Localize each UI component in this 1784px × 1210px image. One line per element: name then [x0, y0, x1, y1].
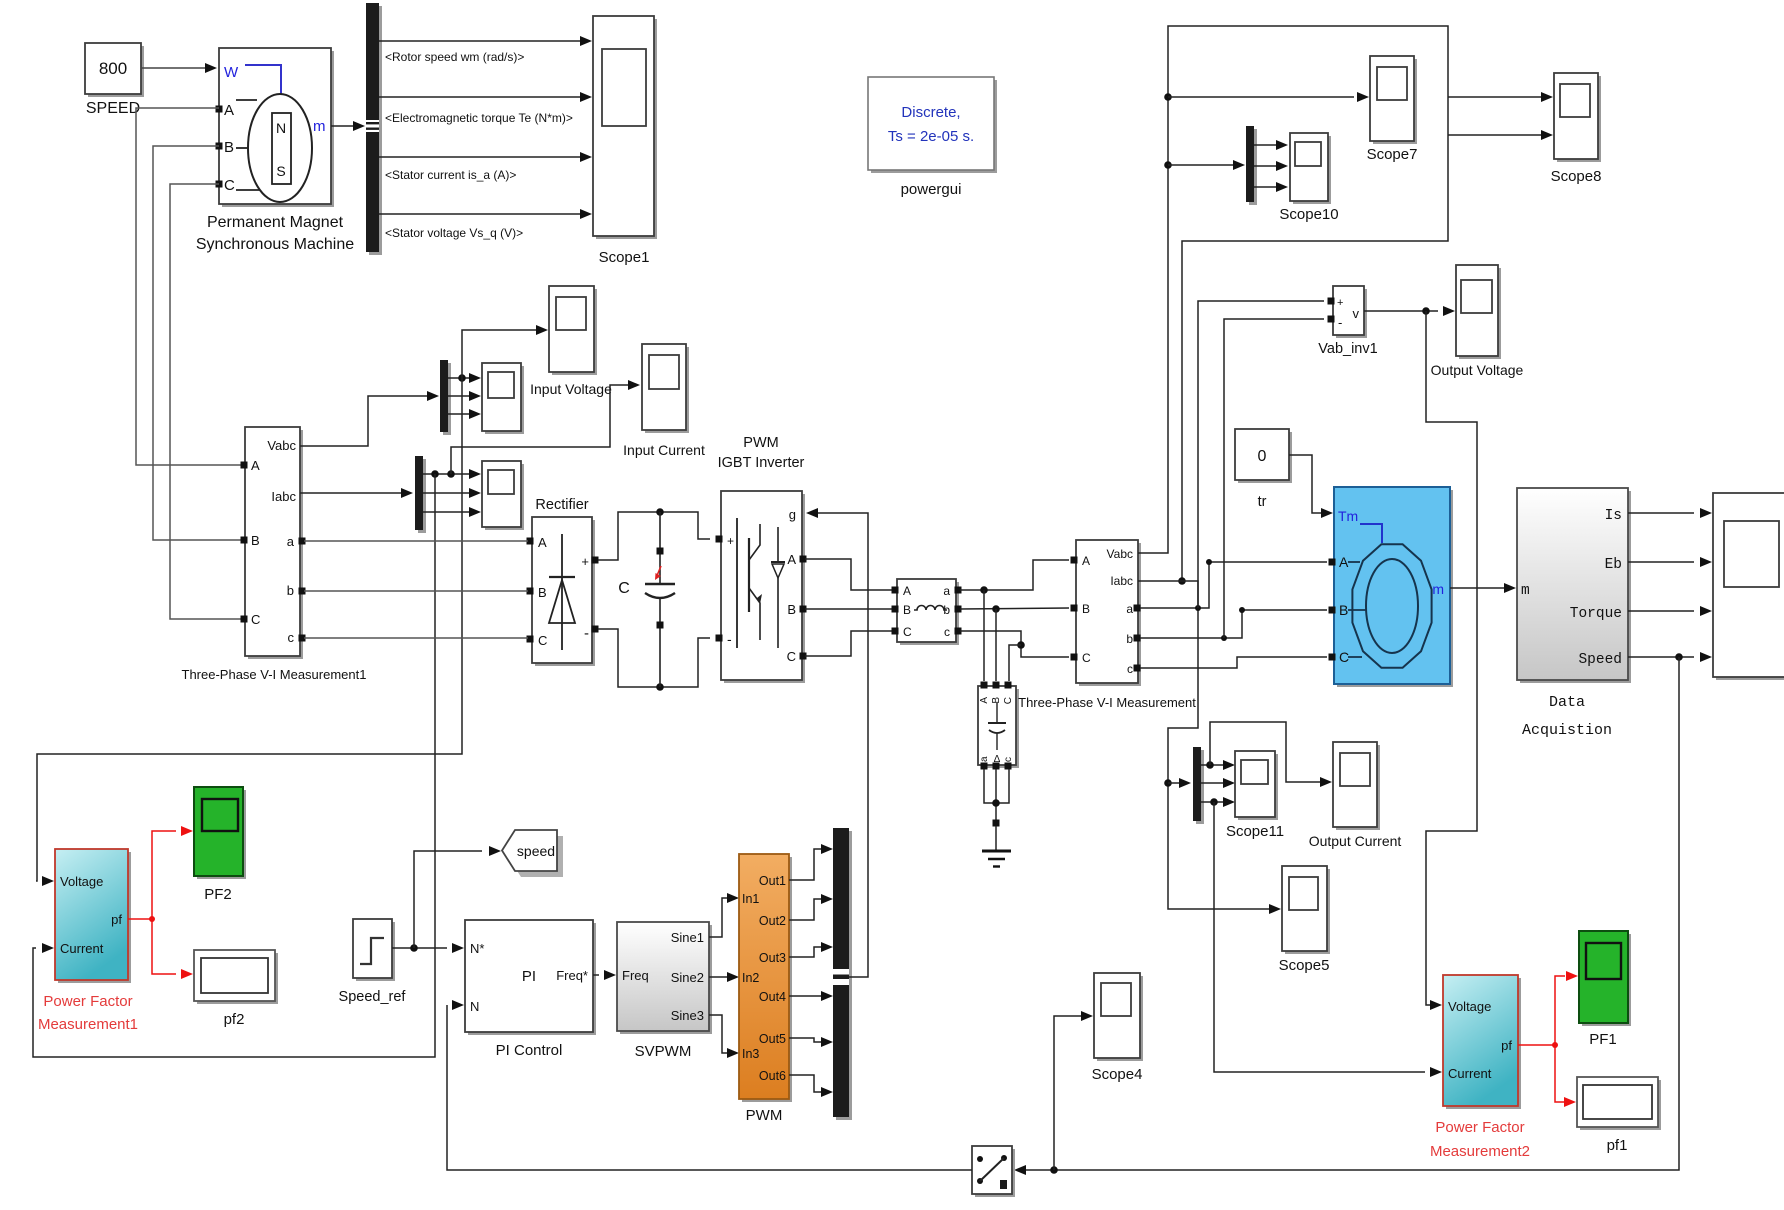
svg-text:Data: Data: [1549, 694, 1585, 711]
wire bus2 out3: [423, 511, 469, 513]
svg-text:A: A: [224, 102, 234, 119]
wire Out6 to mux: [789, 1075, 821, 1092]
svg-text:Synchronous Machine: Synchronous Machine: [196, 236, 354, 253]
block Manual Switch: [972, 1146, 1015, 1197]
block Data Acquisition: [1517, 488, 1631, 683]
wire measurement1 a to rectifier A: [304, 540, 528, 542]
svg-text:In2: In2: [742, 971, 759, 985]
scope Scope4: [1094, 973, 1143, 1061]
junction Scope4 tap: [1050, 1166, 1058, 1174]
wire Vab_inv1 out: [1364, 310, 1438, 312]
junction pf2 red: [149, 916, 155, 922]
demux bus Scope11: [1196, 750, 1204, 824]
svg-text:Out5: Out5: [759, 1032, 786, 1046]
svg-text:C: C: [1082, 651, 1091, 665]
svg-text:m: m: [1521, 583, 1530, 599]
wire to PFM2 Current input: [1214, 802, 1425, 1072]
svg-text:Rectifier: Rectifier: [535, 497, 588, 513]
junction bus2 out1 tap b: [447, 470, 455, 478]
wire rectifier minus rail: [598, 629, 710, 687]
svg-text:0: 0: [1258, 448, 1267, 465]
svg-text:c: c: [1127, 662, 1133, 676]
wire PFM2 pf output: [1518, 1044, 1555, 1046]
svg-text:Power Factor: Power Factor: [43, 993, 132, 1010]
wire speed feedback down and left: [1026, 657, 1679, 1170]
wire stator voltage to Scope1 in4: [379, 213, 580, 215]
block PWM IGBT Inverter: [721, 491, 805, 683]
svg-text:C: C: [1339, 649, 1349, 665]
wire PMSM A to measurement1 A: [136, 108, 242, 465]
svg-text:Scope10: Scope10: [1279, 206, 1338, 223]
wire cap bank to ground bus: [984, 769, 1009, 803]
block asynchronous machine blue: [1334, 487, 1453, 687]
svg-text:Vabc: Vabc: [1107, 547, 1133, 561]
wire to Scope8 in1: [1448, 96, 1541, 98]
wire Speed to scope: [1628, 656, 1694, 658]
constant block tr value 0: [1235, 429, 1292, 483]
wire current tap to PFM1 Current: [33, 474, 435, 1057]
svg-text:Discrete,: Discrete,: [901, 104, 960, 121]
junction Vab out: [1422, 307, 1430, 315]
PMSM rotor icon ellipse: [248, 94, 312, 202]
svg-text:powergui: powergui: [901, 181, 962, 198]
wire stator current to Scope1 in3: [379, 156, 580, 158]
svg-text:<Stator voltage Vs_q (V)>: <Stator voltage Vs_q (V)>: [385, 226, 523, 240]
junction PFM2 current tap: [1210, 798, 1218, 806]
block three-phase series branch: [897, 579, 959, 645]
junction scope10 tap: [1164, 161, 1172, 169]
svg-text:Out1: Out1: [759, 874, 786, 888]
wire to ground symbol: [995, 826, 997, 851]
wire rotor speed to Scope1 in1: [379, 40, 580, 42]
block Power Factor Measurement2: [1443, 975, 1521, 1109]
svg-text:-: -: [727, 631, 732, 647]
svg-text:SPEED: SPEED: [86, 100, 140, 117]
display pf1: [1577, 1077, 1661, 1130]
wire Out2 to mux: [789, 899, 821, 920]
svg-text:pf1: pf1: [1607, 1137, 1628, 1154]
svg-text:Scope11: Scope11: [1226, 823, 1284, 840]
wire bus2 out2: [423, 492, 469, 494]
wire cap bank mid down: [995, 769, 997, 820]
svg-text:A: A: [538, 535, 547, 550]
svg-text:g: g: [789, 507, 796, 522]
junction output current tap: [1206, 761, 1214, 769]
wire to Scope10 bus: [1168, 164, 1233, 166]
svg-text:Torque: Torque: [1570, 606, 1622, 622]
wire scope10 bus out2: [1254, 165, 1276, 167]
svg-text:tr: tr: [1258, 494, 1267, 510]
svg-text:Voltage: Voltage: [1448, 999, 1491, 1014]
svg-text:a: a: [979, 756, 990, 762]
wire cap bank feed b: [995, 609, 997, 681]
svg-text:<Electromagnetic torque Te (N*: <Electromagnetic torque Te (N*m)>: [385, 111, 573, 125]
svg-text:Vab_inv1: Vab_inv1: [1318, 341, 1377, 357]
port squares rectifier: [527, 538, 534, 545]
wire series b to measurement2 B: [960, 608, 1069, 609]
port squares series block: [892, 587, 899, 594]
block Permanent Magnet Synchronous Machine: [219, 48, 334, 207]
wire Eb to scope: [1628, 561, 1694, 563]
svg-text:B: B: [1339, 602, 1348, 618]
junction ground node: [992, 799, 1000, 807]
svg-text:B: B: [224, 139, 234, 156]
port squares measurement2: [1071, 557, 1078, 564]
svg-text:c: c: [288, 630, 295, 645]
svg-text:A: A: [1339, 554, 1349, 570]
junction Iabc net: [1178, 577, 1186, 585]
svg-text:m: m: [313, 118, 326, 135]
machine blue elbow: [1360, 524, 1382, 543]
svg-text:B: B: [787, 602, 796, 617]
svg-text:A: A: [251, 458, 260, 473]
constant block SPEED value 800: [85, 43, 144, 97]
mux bar break marks: [833, 969, 849, 975]
svg-text:Current: Current: [60, 941, 104, 956]
block PI Control: [465, 920, 596, 1035]
svg-text:-: -: [584, 625, 589, 642]
block Power Factor Measurement1: [55, 849, 131, 983]
wire bus2 out1: [423, 473, 469, 475]
IGBT icon: [736, 518, 738, 648]
wire series c to measurement2 C: [960, 631, 1069, 657]
svg-text:PF1: PF1: [1589, 1031, 1617, 1048]
junction bus2 out1 tap a: [431, 470, 439, 478]
junction corner b: [1239, 607, 1245, 613]
wire PI Freq* to SVPWM Freq: [593, 974, 599, 976]
svg-text:N: N: [470, 999, 479, 1014]
scope Scope1: [593, 16, 657, 239]
junction phase a to cap bank: [980, 586, 988, 594]
wire bus1 out1: [448, 377, 469, 379]
wire pf to PF1 scope: [1555, 976, 1565, 1045]
scope Output Current: [1333, 742, 1380, 830]
wire 800 to PMSM W input: [141, 67, 205, 69]
scope Scope5: [1282, 866, 1330, 954]
svg-text:B: B: [251, 533, 260, 548]
wire phase a to Vab_inv1 plus: [1198, 301, 1324, 608]
svg-text:v: v: [1353, 306, 1360, 321]
svg-text:Voltage: Voltage: [60, 874, 103, 889]
scope Scope8: [1554, 73, 1601, 162]
wire Out5 to mux: [789, 1038, 821, 1042]
junction phase b to cap bank: [992, 605, 1000, 613]
Speed_ref step icon: [360, 938, 384, 964]
svg-text:Tm: Tm: [1338, 508, 1358, 524]
wire scope11 bus out2: [1201, 782, 1223, 784]
svg-text:Current: Current: [1448, 1066, 1492, 1081]
scope Input Current: [642, 344, 689, 433]
scope right edge: [1713, 493, 1784, 680]
junction speed feedback: [1675, 653, 1683, 661]
wire measurement2 b to machine B: [1140, 610, 1327, 638]
svg-text:b: b: [1126, 632, 1133, 646]
junction Vab plus tap: [1195, 605, 1201, 611]
wire phase b to Vab_inv1 minus: [1224, 319, 1324, 638]
wire scope10 bus out3: [1254, 186, 1276, 188]
svg-text:m: m: [1432, 581, 1444, 597]
wire inverter A to series A: [805, 559, 892, 590]
svg-text:Vabc: Vabc: [267, 438, 296, 453]
svg-text:Sine1: Sine1: [671, 930, 704, 945]
svg-text:Output Voltage: Output Voltage: [1431, 362, 1524, 378]
bus selector break marks: [366, 120, 379, 132]
wire Torque to scope: [1628, 610, 1694, 612]
capacitor C: [659, 512, 661, 583]
scope voltage phases: [482, 363, 524, 434]
wire to Scope8 in2: [1448, 134, 1541, 136]
block Vab_inv1 voltage measurement: [1333, 286, 1367, 338]
wire machine m to Data Acquisition: [1450, 587, 1504, 589]
wire mux to inverter g: [818, 513, 868, 977]
PMSM blue W elbow: [245, 65, 281, 94]
wire to speed goto tag: [414, 851, 482, 948]
svg-text:A: A: [787, 552, 796, 567]
wire Out4 to mux: [789, 995, 821, 997]
svg-text:C: C: [538, 633, 547, 648]
wire into scope11 bus: [1168, 782, 1179, 784]
svg-text:Eb: Eb: [1605, 557, 1622, 573]
svg-text:Iabc: Iabc: [1110, 574, 1133, 588]
svg-text:a: a: [943, 584, 950, 598]
scope Input Voltage: [549, 286, 597, 375]
svg-text:N: N: [276, 120, 286, 136]
svg-text:Is: Is: [1605, 508, 1622, 524]
display pf2: [194, 950, 278, 1004]
svg-text:Out3: Out3: [759, 951, 786, 965]
svg-text:C: C: [903, 625, 912, 639]
current demux bus2: [418, 459, 426, 533]
svg-text:Scope1: Scope1: [599, 249, 650, 266]
svg-text:PF2: PF2: [204, 886, 232, 903]
svg-text:Sine3: Sine3: [671, 1008, 704, 1023]
svg-text:Input Current: Input Current: [623, 442, 705, 458]
demux bus Scope10: [1249, 129, 1257, 205]
svg-text:IGBT Inverter: IGBT Inverter: [718, 455, 805, 471]
svg-text:Sine2: Sine2: [671, 970, 704, 985]
PMSM inner stub lines: [236, 99, 257, 101]
junction pf1 red: [1552, 1042, 1558, 1048]
wire Is to scope: [1628, 512, 1694, 514]
svg-text:In1: In1: [742, 892, 759, 906]
scope Scope10: [1290, 133, 1331, 204]
wire to Scope4: [1054, 1016, 1081, 1170]
svg-text:Measurement2: Measurement2: [1430, 1143, 1530, 1160]
svg-text:a: a: [1126, 602, 1133, 616]
svg-text:+: +: [581, 554, 589, 569]
svg-text:Permanent Magnet: Permanent Magnet: [207, 214, 344, 231]
wire Iabc to scope11 bus and Scope5: [1138, 581, 1269, 909]
svg-text:PI Control: PI Control: [496, 1042, 563, 1059]
svg-text:PWM: PWM: [743, 435, 778, 451]
junction cap top: [656, 508, 664, 516]
svg-text:Input Voltage: Input Voltage: [530, 381, 612, 397]
wire bus1 out2: [448, 395, 469, 397]
svg-text:Freq: Freq: [622, 968, 649, 983]
block SVPWM: [617, 922, 712, 1034]
wire Sine1 to PWM In1: [709, 898, 727, 937]
svg-text:+: +: [1337, 297, 1343, 309]
manual switch icon: [977, 1156, 983, 1162]
wire pf to pf2 display: [152, 919, 176, 974]
wire to Scope7: [1168, 96, 1354, 98]
wire scope11 bus out3: [1201, 801, 1223, 803]
ground symbol: [982, 850, 1011, 853]
block Rectifier: [532, 517, 595, 666]
rectifier diode icon: [561, 534, 563, 650]
svg-text:C: C: [251, 612, 260, 627]
mux bar gate signals: [836, 831, 852, 1120]
svg-text:C: C: [224, 177, 235, 194]
bus selector bar top-left: [369, 6, 382, 255]
svg-text:Out4: Out4: [759, 990, 786, 1004]
svg-text:Scope7: Scope7: [1367, 146, 1418, 163]
block Speed_ref step source: [353, 919, 395, 981]
junction Vab minus tap: [1221, 635, 1227, 641]
wire switch to PI N loop: [447, 1005, 972, 1170]
svg-text:Three-Phase V-I Measurement: Three-Phase V-I Measurement: [1018, 695, 1196, 710]
port squares inverter: [716, 536, 723, 543]
svg-text:pf2: pf2: [224, 1011, 245, 1028]
wire Out1 to mux: [789, 849, 821, 880]
svg-text:c: c: [944, 625, 950, 639]
svg-text:+: +: [727, 534, 734, 548]
wire measurement1 c to rectifier C: [304, 637, 528, 639]
svg-text:Three-Phase V-I Measurement1: Three-Phase V-I Measurement1: [182, 667, 367, 682]
svg-text:Scope5: Scope5: [1279, 957, 1330, 974]
svg-text:B: B: [1082, 602, 1090, 616]
wire pf to pf1 display: [1555, 1045, 1565, 1102]
svg-text:<Rotor speed wm (rad/s)>: <Rotor speed wm (rad/s)>: [385, 50, 524, 64]
svg-text:c: c: [1003, 757, 1014, 762]
wire Speed_ref to PI N*: [392, 947, 447, 949]
scope Scope11: [1235, 751, 1278, 820]
svg-text:S: S: [276, 163, 285, 179]
wire bus1 out3: [448, 413, 469, 415]
junction phase c to cap bank: [1017, 641, 1025, 649]
goto tag speed: [502, 830, 563, 877]
scope PF2 green: [194, 787, 246, 879]
wire cap bank feed c: [1009, 645, 1021, 681]
wire inverter B to series B: [805, 608, 892, 610]
capacitor red polarity arrow: [656, 566, 661, 578]
block Three-Phase V-I Measurement1: [245, 427, 303, 659]
junction cap bottom: [656, 683, 664, 691]
wire Sine3 to PWM In3: [709, 1015, 727, 1053]
wire tr to machine Tm: [1289, 455, 1321, 513]
wire measurement2 c to machine C: [1140, 657, 1327, 668]
scope current phases: [482, 461, 524, 530]
svg-text:800: 800: [99, 59, 127, 78]
wire Out3 to mux: [789, 947, 821, 957]
svg-text:Measurement1: Measurement1: [38, 1016, 138, 1033]
wire PMSM m to bus selector: [331, 125, 353, 127]
block powergui: [868, 77, 997, 173]
port squares machine: [1329, 559, 1336, 566]
wire Vabc to voltage bus: [300, 396, 427, 446]
wire rectifier plus rail: [598, 512, 710, 560]
svg-text:speed: speed: [517, 843, 555, 859]
svg-text:C: C: [1003, 697, 1014, 704]
svg-text:pf: pf: [1501, 1038, 1512, 1053]
svg-text:Iabc: Iabc: [271, 489, 296, 504]
scope Output Voltage: [1456, 265, 1501, 359]
port squares PMSM A B C: [216, 106, 223, 113]
svg-text:In3: In3: [742, 1047, 759, 1061]
svg-text:<Stator current is_a (A)>: <Stator current is_a (A)>: [385, 168, 516, 182]
wire torque to Scope1 in2: [379, 96, 580, 98]
svg-text:C: C: [787, 649, 796, 664]
wire to Output Current scope: [1210, 722, 1320, 782]
block PWM subsystem orange: [739, 854, 792, 1102]
svg-text:B: B: [991, 697, 1002, 704]
wire pf to PF2 scope: [152, 831, 176, 919]
wire series a to measurement2 A: [960, 560, 1069, 590]
block three-phase capacitor load: [978, 686, 1019, 768]
junction on bus1 out1: [458, 374, 466, 382]
wire Sine2 to PWM In2: [709, 976, 727, 978]
svg-text:Power Factor: Power Factor: [1435, 1119, 1524, 1136]
junction scope7 tap: [1164, 93, 1172, 101]
series inductor icon: [914, 606, 947, 611]
wire Iabc to current bus: [300, 492, 401, 494]
svg-text:Acquistion: Acquistion: [1522, 722, 1612, 739]
wire PMSM B to measurement1 B: [153, 146, 242, 540]
svg-text:PWM: PWM: [746, 1107, 783, 1124]
svg-text:Scope8: Scope8: [1551, 168, 1602, 185]
svg-text:Scope4: Scope4: [1092, 1066, 1143, 1083]
scope Scope7: [1370, 56, 1417, 144]
machine rotor icon: [1352, 544, 1431, 668]
voltage demux bus1: [443, 363, 451, 435]
port squares cap bank: [981, 682, 988, 689]
cap bank capacitor icon: [996, 703, 998, 722]
svg-text:Out6: Out6: [759, 1069, 786, 1083]
svg-text:Output Current: Output Current: [1309, 833, 1402, 849]
svg-text:B: B: [538, 585, 547, 600]
svg-text:A: A: [1082, 554, 1090, 568]
block Three-Phase V-I Measurement: [1076, 540, 1141, 686]
wire voltage tap to PFM1 Voltage: [36, 378, 462, 881]
wire PFM1 pf output: [128, 918, 152, 920]
wire to Input Voltage scope: [462, 330, 536, 378]
svg-text:Speed: Speed: [1578, 652, 1622, 668]
svg-text:-: -: [1338, 315, 1342, 330]
svg-text:pf: pf: [111, 912, 122, 927]
wire PMSM C to measurement1 C: [170, 184, 242, 619]
wire measurement2 a to machine A: [1140, 562, 1327, 608]
wire inverter C to series C: [805, 631, 892, 656]
svg-text:Ts = 2e-05 s.: Ts = 2e-05 s.: [888, 128, 974, 145]
wire N arrow stub: [446, 1004, 448, 1006]
svg-text:b: b: [287, 583, 294, 598]
svg-text:B: B: [903, 603, 911, 617]
port squares measurement1: [241, 462, 248, 469]
wire Vab to PFM2 Voltage: [1426, 311, 1477, 1005]
svg-text:A: A: [903, 584, 911, 598]
svg-text:SVPWM: SVPWM: [635, 1043, 692, 1060]
svg-text:C: C: [618, 580, 630, 597]
svg-text:Out2: Out2: [759, 914, 786, 928]
junction scope11 bus feed: [1164, 779, 1172, 787]
wire scope10 bus out1: [1254, 144, 1276, 146]
wire Vabc up to scopes: [1138, 26, 1448, 581]
svg-text:W: W: [224, 64, 239, 81]
svg-text:PI: PI: [522, 968, 536, 985]
junction corner a: [1206, 559, 1212, 565]
svg-text:a: a: [287, 534, 295, 549]
wire scope11 bus out1: [1201, 764, 1223, 766]
